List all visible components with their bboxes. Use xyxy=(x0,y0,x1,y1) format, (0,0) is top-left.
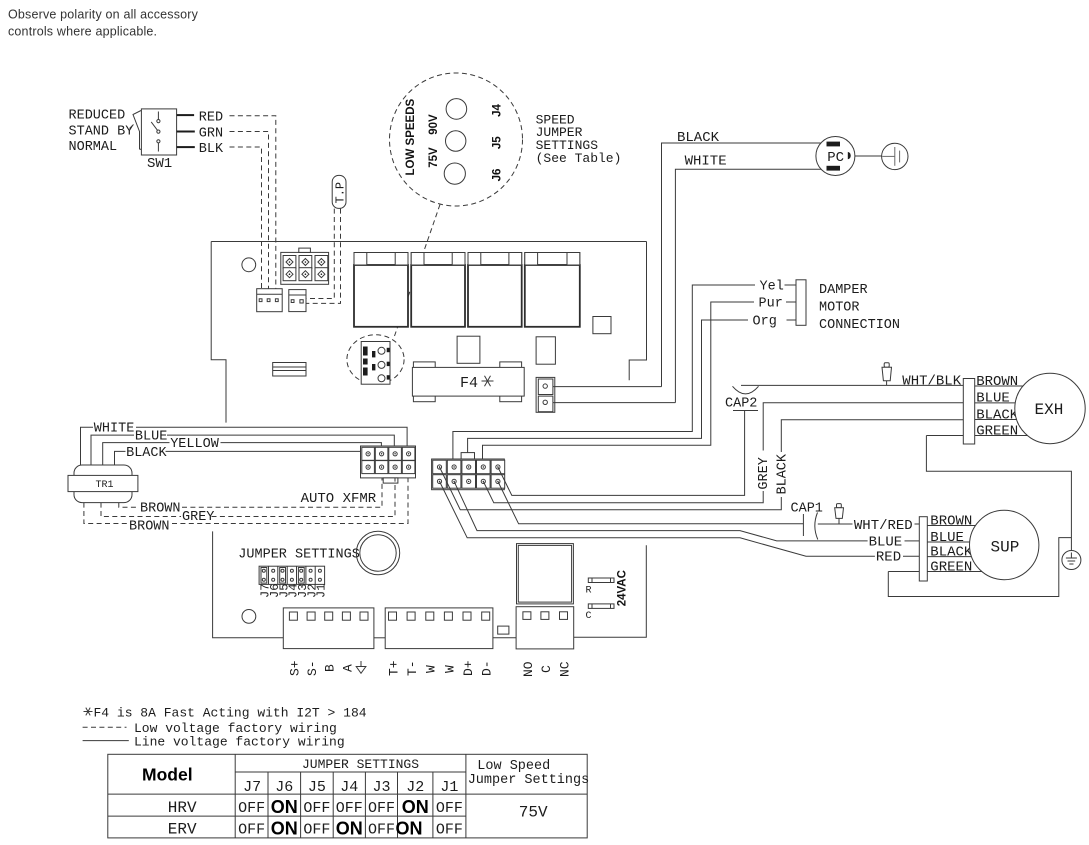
speed jumper settings detail circle xyxy=(390,73,523,206)
svg-text:BLUE: BLUE xyxy=(976,391,1010,407)
terminal block NO/C/NC xyxy=(516,607,574,649)
wire WHT/RED xyxy=(498,481,920,524)
wire EXH BROWN xyxy=(975,385,1026,387)
wire T.P leg 2 dashed xyxy=(298,209,341,304)
wire EXH BLACK xyxy=(975,419,1018,421)
svg-text:GREEN: GREEN xyxy=(930,559,972,575)
svg-text:BROWN: BROWN xyxy=(140,502,181,517)
legend low voltage wiring xyxy=(83,726,127,728)
svg-text:B: B xyxy=(323,664,338,672)
svg-text:WHT/BLK: WHT/BLK xyxy=(902,373,961,389)
svg-text:WHITE: WHITE xyxy=(94,422,135,437)
ground (earth) xyxy=(1062,551,1081,570)
terminal block 2-pin (T.P) xyxy=(289,290,306,312)
svg-text:BLACK: BLACK xyxy=(677,130,720,146)
motor EXH xyxy=(1015,373,1085,443)
wire BLACK line cord xyxy=(662,143,822,387)
board outline left edge xyxy=(211,242,226,423)
wire PC to ground pin xyxy=(855,155,882,157)
wire SUP GREEN xyxy=(888,571,982,573)
fuse F4 xyxy=(412,362,524,402)
svg-text:J5: J5 xyxy=(308,779,326,796)
wire RED (SUP) xyxy=(440,481,920,556)
wire nut (WHT/RED) xyxy=(835,504,844,524)
jumper R xyxy=(586,578,615,597)
table headers J7-J1 xyxy=(243,779,458,796)
wire SUP return to ground xyxy=(888,538,1071,597)
relay K2 xyxy=(411,253,465,327)
svg-text:AUTO XFMR: AUTO XFMR xyxy=(301,491,377,507)
wire BLACK (TR1) xyxy=(115,451,368,465)
svg-text:Observe polarity on all access: Observe polarity on all accessory xyxy=(8,8,199,22)
terminal block S xyxy=(283,608,374,649)
mounting hole upper xyxy=(242,258,256,272)
wire WHITE line cord xyxy=(675,169,821,402)
board outline right edge xyxy=(629,242,646,381)
svg-text:BLACK: BLACK xyxy=(976,407,1019,423)
jumper C xyxy=(586,604,615,622)
svg-text:CAP1: CAP1 xyxy=(791,502,823,517)
svg-text:GREY: GREY xyxy=(182,510,214,525)
speed jumper block on board xyxy=(361,342,390,385)
relay K4 xyxy=(525,253,580,327)
svg-text:T-: T- xyxy=(405,660,420,676)
component flat rect (left) xyxy=(273,363,306,377)
svg-text:D-: D- xyxy=(480,660,495,676)
svg-text:ON: ON xyxy=(271,797,298,817)
svg-text:J7: J7 xyxy=(243,779,261,796)
svg-text:W: W xyxy=(442,665,457,673)
svg-text:OFF: OFF xyxy=(303,822,330,839)
wire WHITE (TR1) xyxy=(81,427,408,465)
note SPEED JUMPER SETTINGS xyxy=(536,112,622,165)
wire YELLOW (TR1) xyxy=(103,443,382,465)
svg-text:BLK: BLK xyxy=(199,142,224,157)
thermistor T.P xyxy=(332,175,347,208)
mounting hole lower xyxy=(242,610,256,624)
board outline top edge xyxy=(211,241,646,243)
svg-text:S-: S- xyxy=(305,660,320,676)
SW1 selector bracket xyxy=(130,111,142,150)
svg-text:OFF: OFF xyxy=(303,800,330,817)
svg-text:BROWN: BROWN xyxy=(930,513,972,529)
svg-text:90V: 90V xyxy=(428,114,440,135)
svg-text:controls where applicable.: controls where applicable. xyxy=(8,25,157,39)
svg-text:PC: PC xyxy=(827,150,844,166)
board speed-jumper detail circle (dashed) xyxy=(347,335,404,384)
labels SUP wires xyxy=(930,513,973,575)
svg-text:OFF: OFF xyxy=(436,822,463,839)
svg-text:DAMPER: DAMPER xyxy=(819,283,868,298)
component small square xyxy=(593,317,611,334)
svg-text:W: W xyxy=(424,665,439,673)
wire BLUE (TR1) xyxy=(91,435,394,465)
svg-text:Low Speed: Low Speed xyxy=(477,759,550,774)
svg-text:LOW SPEEDS: LOW SPEEDS xyxy=(405,98,417,175)
svg-text:J3: J3 xyxy=(373,779,391,796)
svg-text:MOTOR: MOTOR xyxy=(819,301,860,316)
svg-text:F4 is 8A Fast Acting with I2T: F4 is 8A Fast Acting with I2T > 184 xyxy=(94,706,367,721)
connector EXH xyxy=(963,379,974,445)
switch SW1 labels xyxy=(69,109,134,156)
switch SW1 xyxy=(141,109,176,172)
note: polarity notice xyxy=(8,8,199,39)
labels J7-J1 xyxy=(259,584,329,598)
svg-text:CAP2: CAP2 xyxy=(725,396,757,411)
svg-text:STAND BY: STAND BY xyxy=(69,124,134,139)
svg-text:T+: T+ xyxy=(386,660,401,676)
wire GREY (EXH blue) xyxy=(483,403,963,503)
connector 6-pin xyxy=(281,248,329,284)
svg-text:OFF: OFF xyxy=(238,800,265,817)
svg-text:J1: J1 xyxy=(440,779,458,796)
wire Org xyxy=(468,320,796,467)
svg-text:BROWN: BROWN xyxy=(976,374,1018,390)
svg-text:NO: NO xyxy=(521,661,536,677)
svg-text:CONNECTION: CONNECTION xyxy=(819,318,900,333)
labels T+ T- W W D+ D- xyxy=(386,660,494,676)
svg-text:ON: ON xyxy=(402,797,429,817)
jumper J4 circle xyxy=(446,99,467,120)
SW1 terminal RED xyxy=(177,114,195,116)
wire WHT/BLK to EXH xyxy=(741,384,963,386)
wire BLUE (SUP) xyxy=(454,481,919,541)
board outline segment between blocks 2-3 xyxy=(493,637,516,639)
svg-text:OFF: OFF xyxy=(436,800,463,817)
svg-text:(See Table): (See Table) xyxy=(536,151,622,166)
wire BLACK (EXH black) xyxy=(440,420,964,510)
svg-text:Pur: Pur xyxy=(759,296,783,311)
legend line voltage wiring xyxy=(83,740,129,742)
wire GRN dashed xyxy=(230,132,269,298)
table jumper settings xyxy=(108,754,587,838)
motor SUP xyxy=(970,510,1039,579)
wire SUP BROWN xyxy=(927,525,986,527)
relay K5 xyxy=(517,544,574,604)
labels NO C NC xyxy=(521,661,573,677)
wire nut (WHT/BLK) xyxy=(882,363,892,386)
svg-text:GRN: GRN xyxy=(199,126,223,141)
wire relay to NO/C/NC block xyxy=(574,545,647,637)
svg-text:J6: J6 xyxy=(275,779,293,796)
svg-text:GREY: GREY xyxy=(757,457,772,489)
wire Yel xyxy=(453,285,796,467)
svg-text:OFF: OFF xyxy=(238,822,265,839)
svg-text:WHT/RED: WHT/RED xyxy=(854,518,913,534)
component rect A xyxy=(457,336,480,363)
terminal block 3-pin (SW1) xyxy=(257,289,283,312)
svg-text:NC: NC xyxy=(557,661,572,677)
svg-text:TR1: TR1 xyxy=(96,480,114,491)
wire BROWN dashed (TR1) xyxy=(119,478,382,507)
svg-text:F4: F4 xyxy=(460,375,478,392)
svg-text:J6: J6 xyxy=(492,169,504,182)
svg-text:EXH: EXH xyxy=(1035,401,1064,419)
svg-text:J1: J1 xyxy=(315,584,329,598)
svg-text:D+: D+ xyxy=(461,660,476,676)
svg-text:OFF: OFF xyxy=(336,800,363,817)
wire SUP BLUE xyxy=(927,541,975,543)
svg-text:GREEN: GREEN xyxy=(976,423,1018,439)
svg-text:BLACK: BLACK xyxy=(775,453,790,494)
wire BROWN 2 dashed (TR1) xyxy=(84,478,408,524)
svg-text:S+: S+ xyxy=(287,660,302,676)
wire GREY dashed (TR1) xyxy=(101,478,395,517)
buzzer xyxy=(356,531,399,574)
svg-text:BROWN: BROWN xyxy=(129,520,170,535)
wire Pur xyxy=(483,302,797,467)
svg-text:BLACK: BLACK xyxy=(126,446,167,461)
svg-text:BLUE: BLUE xyxy=(869,534,903,550)
svg-text:Model: Model xyxy=(142,765,193,785)
wire RED dashed xyxy=(230,116,276,297)
svg-text:Yel: Yel xyxy=(760,279,784,294)
svg-text:Line voltage factory wiring: Line voltage factory wiring xyxy=(134,734,345,749)
wire EXH BLUE xyxy=(975,402,1017,404)
jumper block J7-J1 xyxy=(259,566,325,584)
svg-text:75V: 75V xyxy=(428,147,440,168)
board outline lower left edge xyxy=(213,531,284,637)
component small rect (between blocks) xyxy=(498,626,509,634)
connector motor 10-pin xyxy=(432,453,505,490)
terminal block T/W/D xyxy=(385,608,493,649)
capacitor CAP1 xyxy=(791,502,823,540)
svg-text:OFF: OFF xyxy=(368,800,395,817)
svg-text:NORMAL: NORMAL xyxy=(69,140,118,155)
svg-text:HRV: HRV xyxy=(168,799,197,817)
svg-text:ERV: ERV xyxy=(168,821,197,839)
connector AUTO XFMR 8-pin xyxy=(361,446,416,483)
svg-text:BLACK: BLACK xyxy=(930,544,973,560)
svg-text:75V: 75V xyxy=(519,803,548,821)
wire EXH GREEN xyxy=(926,435,1029,437)
labels S+ S- B A gnd xyxy=(287,660,366,676)
svg-text:YELLOW: YELLOW xyxy=(170,437,220,452)
note F4 rating xyxy=(84,708,93,716)
svg-text:J5: J5 xyxy=(492,136,504,149)
capacitor CAP2 xyxy=(725,386,759,411)
wire CAP2 return xyxy=(498,411,745,495)
wire line pin1 to BLACK xyxy=(553,386,662,388)
svg-text:SUP: SUP xyxy=(991,539,1020,557)
svg-text:C: C xyxy=(586,611,592,622)
svg-text:J4: J4 xyxy=(492,104,504,117)
wire EXH return to ground xyxy=(926,436,1071,551)
svg-text:C: C xyxy=(539,665,554,673)
plug PC xyxy=(816,137,855,176)
svg-text:J2: J2 xyxy=(406,779,424,796)
svg-text:JUMPER SETTINGS: JUMPER SETTINGS xyxy=(302,757,419,772)
relay K3 xyxy=(468,253,522,327)
wire labels RED GRN BLK xyxy=(199,111,224,157)
svg-text:WHITE: WHITE xyxy=(685,154,727,170)
svg-text:ON: ON xyxy=(271,819,298,839)
jumper J5 circle xyxy=(446,131,466,151)
svg-text:Jumper Settings: Jumper Settings xyxy=(468,773,590,788)
wire T.P leg 1 dashed xyxy=(297,209,334,299)
svg-text:OFF: OFF xyxy=(368,822,395,839)
jumper J6 circle xyxy=(444,163,465,184)
svg-text:24VAC: 24VAC xyxy=(617,570,629,606)
ground pin symbol xyxy=(882,143,908,169)
wire SUP BLACK xyxy=(927,556,973,558)
svg-text:RED: RED xyxy=(199,111,223,126)
connector 2-pin line in xyxy=(536,377,555,412)
leader line to board detail xyxy=(395,205,441,337)
damper motor connector xyxy=(796,280,806,326)
svg-text:J4: J4 xyxy=(340,779,358,796)
svg-text:ON: ON xyxy=(396,819,423,839)
svg-text:T.P: T.P xyxy=(334,182,348,204)
svg-text:BLUE: BLUE xyxy=(930,530,964,546)
component rect B xyxy=(536,337,555,364)
wire BLK dashed xyxy=(230,147,262,297)
svg-text:Org: Org xyxy=(753,314,777,329)
svg-text:ON: ON xyxy=(336,819,363,839)
relay K1 xyxy=(354,253,408,327)
SW1 terminal BLK xyxy=(177,146,195,148)
connector SUP xyxy=(919,517,927,581)
svg-text:SW1: SW1 xyxy=(147,156,172,172)
wire line pin2 to WHITE xyxy=(553,402,676,404)
labels EXH wires xyxy=(976,374,1019,440)
board outline segment between blocks 1-2 xyxy=(374,637,385,639)
svg-text:A: A xyxy=(340,664,355,672)
transformer TR1 xyxy=(68,465,138,503)
svg-text:REDUCED: REDUCED xyxy=(69,109,126,124)
note DAMPER MOTOR CONNECTION xyxy=(819,283,900,333)
svg-text:R: R xyxy=(586,586,592,597)
SW1 terminal GRN xyxy=(177,131,195,133)
svg-text:RED: RED xyxy=(876,550,901,566)
svg-text:JUMPER SETTINGS: JUMPER SETTINGS xyxy=(238,548,360,563)
